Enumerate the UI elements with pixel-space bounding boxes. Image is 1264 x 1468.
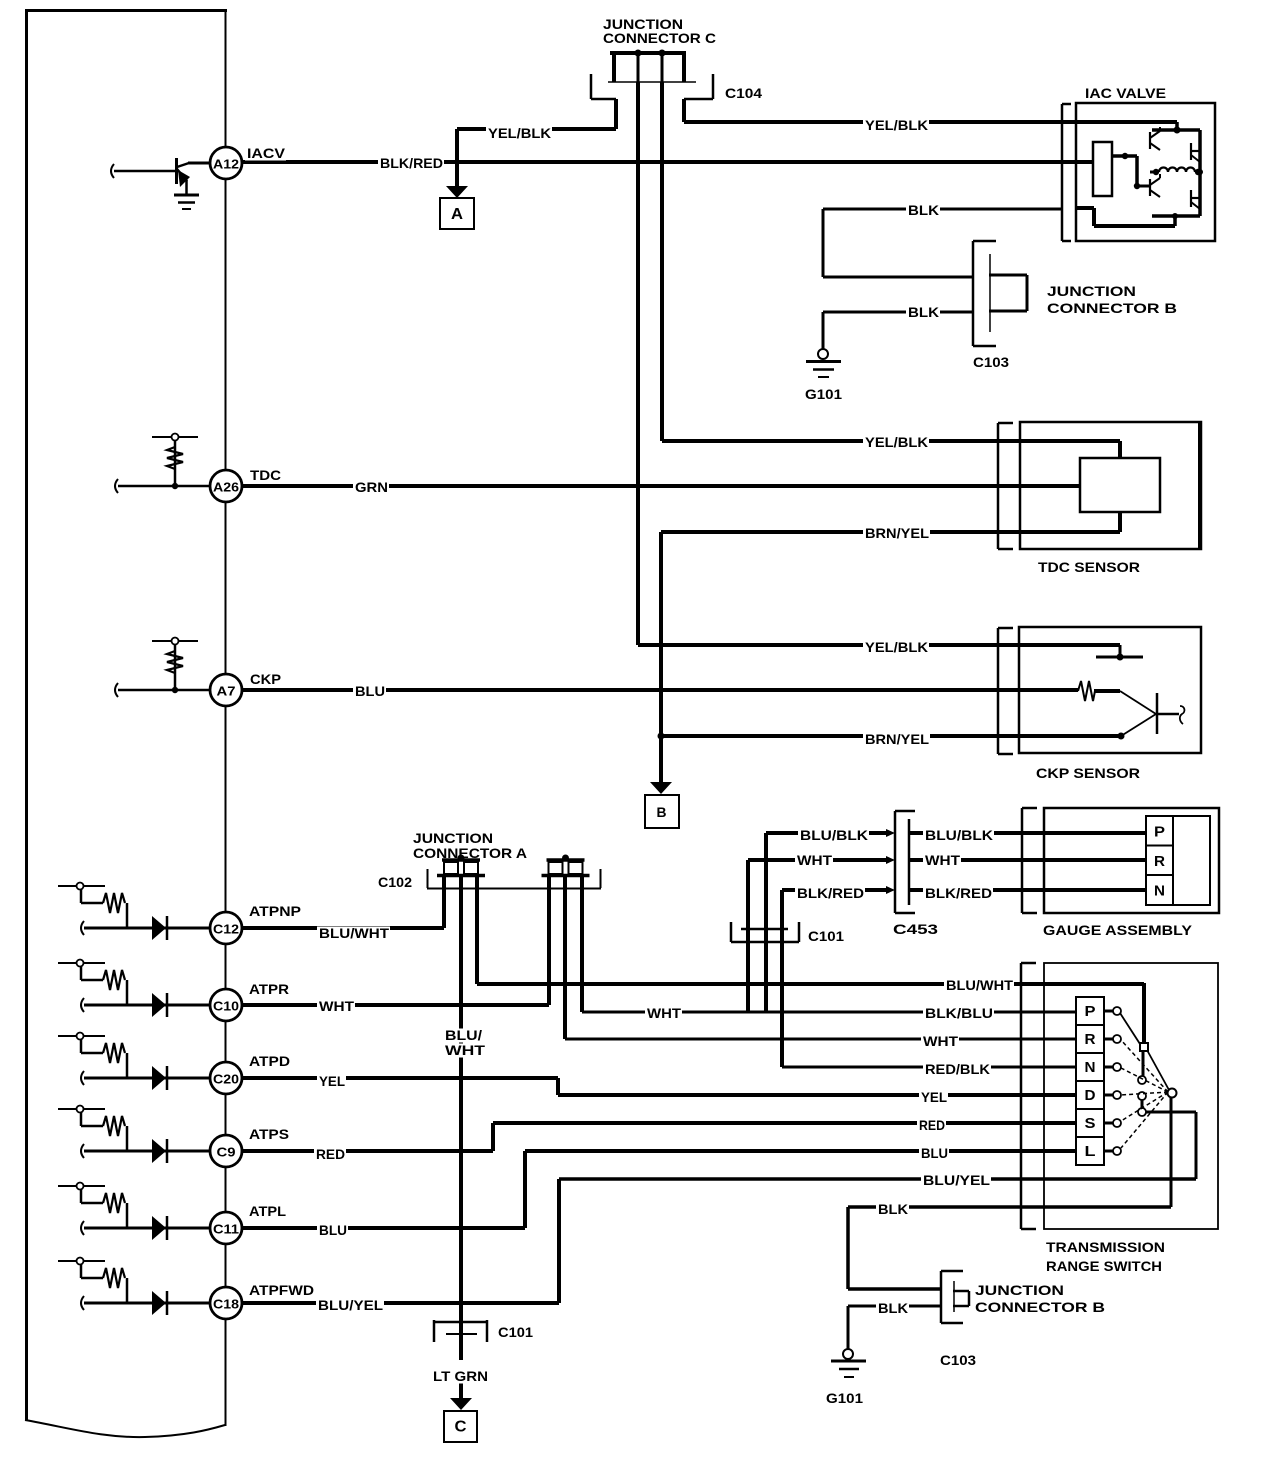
svg-text:GRN: GRN [355, 479, 388, 495]
svg-text:YEL: YEL [921, 1089, 947, 1105]
svg-text:YEL/BLK: YEL/BLK [865, 117, 928, 133]
svg-text:ATPFWD: ATPFWD [249, 1282, 314, 1298]
svg-text:G101: G101 [826, 1390, 863, 1406]
svg-text:A: A [451, 206, 463, 223]
svg-text:BLK: BLK [908, 304, 939, 320]
svg-text:BLU/WHT: BLU/WHT [319, 925, 389, 941]
svg-text:BLK/RED: BLK/RED [380, 155, 443, 171]
svg-text:C101: C101 [808, 928, 844, 944]
svg-text:N: N [1085, 1059, 1096, 1076]
svg-text:RANGE SWITCH: RANGE SWITCH [1046, 1258, 1162, 1274]
svg-text:C11: C11 [213, 1222, 239, 1237]
svg-text:A12: A12 [213, 157, 239, 172]
svg-text:ATPL: ATPL [249, 1203, 286, 1219]
svg-text:YEL/BLK: YEL/BLK [865, 434, 928, 450]
svg-text:BLU/YEL: BLU/YEL [318, 1297, 383, 1313]
svg-text:WHT: WHT [797, 852, 832, 868]
svg-text:B: B [657, 804, 667, 820]
svg-text:L: L [1085, 1143, 1096, 1160]
svg-text:BLU/WHT: BLU/WHT [946, 977, 1013, 993]
svg-text:BLK: BLK [878, 1201, 908, 1217]
svg-text:A7: A7 [217, 684, 236, 699]
svg-text:ATPS: ATPS [249, 1126, 289, 1142]
svg-text:IAC VALVE: IAC VALVE [1085, 85, 1166, 101]
svg-text:C101: C101 [498, 1324, 533, 1340]
svg-text:BLK/RED: BLK/RED [925, 885, 992, 901]
svg-text:C: C [455, 1419, 467, 1436]
svg-text:LT GRN: LT GRN [433, 1368, 488, 1384]
svg-text:BRN/YEL: BRN/YEL [865, 731, 929, 747]
svg-text:ATPNP: ATPNP [249, 903, 301, 919]
svg-text:C103: C103 [973, 354, 1009, 370]
svg-text:P: P [1154, 824, 1165, 841]
svg-text:CONNECTOR B: CONNECTOR B [975, 1299, 1105, 1315]
svg-text:BLU: BLU [355, 683, 385, 699]
svg-text:JUNCTION: JUNCTION [975, 1282, 1064, 1298]
svg-text:ATPD: ATPD [249, 1053, 290, 1069]
svg-text:JUNCTION: JUNCTION [413, 830, 493, 846]
svg-text:BLU/YEL: BLU/YEL [923, 1172, 991, 1188]
svg-text:RED: RED [316, 1146, 345, 1162]
svg-text:C103: C103 [940, 1352, 976, 1368]
svg-text:IACV: IACV [247, 145, 286, 161]
svg-text:YEL/BLK: YEL/BLK [488, 125, 551, 141]
svg-text:BLU: BLU [319, 1222, 347, 1238]
svg-text:BLK: BLK [878, 1300, 908, 1316]
svg-text:RED: RED [919, 1117, 945, 1133]
svg-text:WHT: WHT [925, 852, 960, 868]
svg-text:YEL: YEL [319, 1073, 345, 1089]
svg-text:CKP SENSOR: CKP SENSOR [1036, 765, 1140, 781]
svg-text:CONNECTOR C: CONNECTOR C [603, 30, 716, 46]
svg-text:TRANSMISSION: TRANSMISSION [1046, 1239, 1165, 1255]
svg-text:D: D [1085, 1087, 1096, 1104]
svg-text:BLU/BLK: BLU/BLK [800, 827, 868, 843]
svg-text:WHT: WHT [319, 998, 354, 1014]
svg-text:R: R [1085, 1031, 1096, 1048]
svg-text:CKP: CKP [250, 671, 281, 687]
svg-text:WHT: WHT [923, 1033, 958, 1049]
svg-text:RED/BLK: RED/BLK [925, 1061, 990, 1077]
svg-text:CONNECTOR A: CONNECTOR A [413, 845, 527, 861]
svg-text:ATPR: ATPR [249, 981, 289, 997]
svg-text:A26: A26 [213, 480, 239, 495]
svg-text:S: S [1085, 1115, 1096, 1132]
svg-text:N: N [1154, 883, 1165, 900]
svg-text:C9: C9 [217, 1145, 236, 1160]
svg-text:C18: C18 [213, 1297, 239, 1312]
svg-text:GAUGE ASSEMBLY: GAUGE ASSEMBLY [1043, 922, 1193, 938]
svg-text:C453: C453 [893, 921, 938, 937]
svg-text:C102: C102 [378, 874, 412, 890]
svg-text:WHT: WHT [647, 1005, 681, 1021]
svg-text:BLK/RED: BLK/RED [797, 885, 864, 901]
svg-text:BRN/YEL: BRN/YEL [865, 525, 929, 541]
svg-text:C20: C20 [213, 1072, 239, 1087]
svg-text:P: P [1085, 1003, 1096, 1020]
svg-text:TDC SENSOR: TDC SENSOR [1038, 559, 1140, 575]
svg-text:G101: G101 [805, 386, 842, 402]
svg-text:BLK: BLK [908, 202, 939, 218]
svg-text:YEL/BLK: YEL/BLK [865, 639, 928, 655]
svg-text:TDC: TDC [250, 467, 281, 483]
svg-text:C10: C10 [213, 999, 239, 1014]
svg-text:C12: C12 [213, 922, 239, 937]
svg-text:JUNCTION: JUNCTION [1047, 283, 1136, 299]
svg-text:R: R [1154, 853, 1165, 870]
svg-text:CONNECTOR B: CONNECTOR B [1047, 300, 1177, 316]
svg-text:BLU: BLU [921, 1145, 948, 1161]
svg-text:C104: C104 [725, 85, 762, 101]
svg-text:BLK/BLU: BLK/BLU [925, 1005, 993, 1021]
svg-text:BLU/BLK: BLU/BLK [925, 827, 993, 843]
svg-text:WHT: WHT [445, 1042, 486, 1058]
svg-text:BLU/: BLU/ [445, 1027, 482, 1043]
